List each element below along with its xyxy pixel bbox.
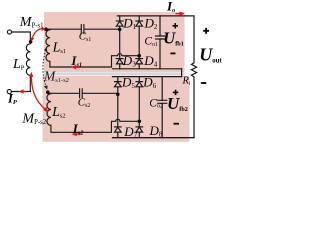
capacitor Co1 bottom lead [159,39,161,69]
current arrow Is1 (red) [71,65,80,69]
dot Ls2 (phase) [46,90,50,94]
label + Ufb2 [173,90,179,95]
bottom rail bridge1 [113,68,182,70]
D3 lead to bottom rail [119,64,121,69]
gap stripe between modules [44,72,185,75]
label - Ufb1 [170,52,175,54]
diode D3 [116,58,123,60]
pickup module 1 shaded box [44,12,185,72]
D7 lead to bottom rail [117,132,119,138]
node A2 [116,93,120,97]
diode D8 [136,126,143,128]
capacitor Co1 [156,36,165,39]
left branch upper lead [119,16,121,21]
D4 lead to bottom rail [138,64,140,69]
diode D1 [116,20,123,22]
wire Ls1 bottom return with rise and hop to node B [50,54,139,67]
dot Ls1 (phase) [44,27,48,31]
diode D5 [115,81,122,83]
top rail / wire to output [117,16,194,63]
inductor Lp [26,44,30,76]
inductor Ls2 [47,93,51,125]
wire D5 to D7 (node A2) [117,87,119,127]
node B1 [137,54,141,58]
pickup module 2 shaded box [43,76,190,142]
right branch upper lead [138,77,140,82]
wire D6 to D8 (node B2) [138,87,140,127]
mutual inductance arrow Mp-s1 (red) [30,27,46,42]
right branch upper lead [138,16,140,21]
capacitor Cs1 [81,25,84,34]
label - Uout [201,82,206,84]
resistor Rl (load) [191,63,196,138]
D8 lead to bottom rail [138,132,140,138]
diode D2 [136,20,143,22]
wire Lp bottom to terminal2 [12,75,31,91]
wire Ls1 top to Cs1 [48,28,81,30]
label + Ufb1 [173,23,179,28]
top rail bridge2 [113,76,182,78]
current arrow Is2 (red) [72,132,81,136]
wire D2 to D4 (node B) [138,26,140,58]
capacitor Co2 bottom lead [161,103,163,137]
left branch upper lead [117,77,119,82]
wire terminal1 to Lp top [12,32,31,40]
capacitor Co2 [158,100,167,103]
label + Uout [203,28,209,34]
series connector rail1 to rail2 [181,69,183,77]
capacitor Co1 top lead [159,16,161,36]
wire Ls2 top to Cs2 [48,92,79,94]
inductor Ls1 [46,29,50,61]
wire Cs1 to bridge1 node A [84,28,119,30]
wire D1 to D3 (node A) [119,26,121,58]
wire Ls2 bottom return with rise and hop to node B [51,119,139,132]
current arrow Io (red) [176,12,185,16]
wire Cs2 to bridge2 node A [83,92,118,95]
diode D7 [115,126,122,128]
terminal bottom-left [7,90,11,94]
node B2 [138,120,142,124]
bottom rail bridge2 / wire to load bottom [113,137,195,139]
mutual inductance arrow Ms1-s2 (black dotted) [43,47,48,90]
diode D4 [136,58,143,60]
current arrow Ip (red) [19,89,27,93]
mutual inductance arrow Mp-s2 (red) [30,72,49,113]
capacitor Co2 top lead [161,77,163,101]
terminal top-left [7,30,11,34]
dot Lp (phase) [29,40,33,44]
node A1 [118,28,122,32]
capacitor Cs2 [80,89,83,98]
label - Ufb2 [174,123,180,125]
diode D6 [136,81,143,83]
